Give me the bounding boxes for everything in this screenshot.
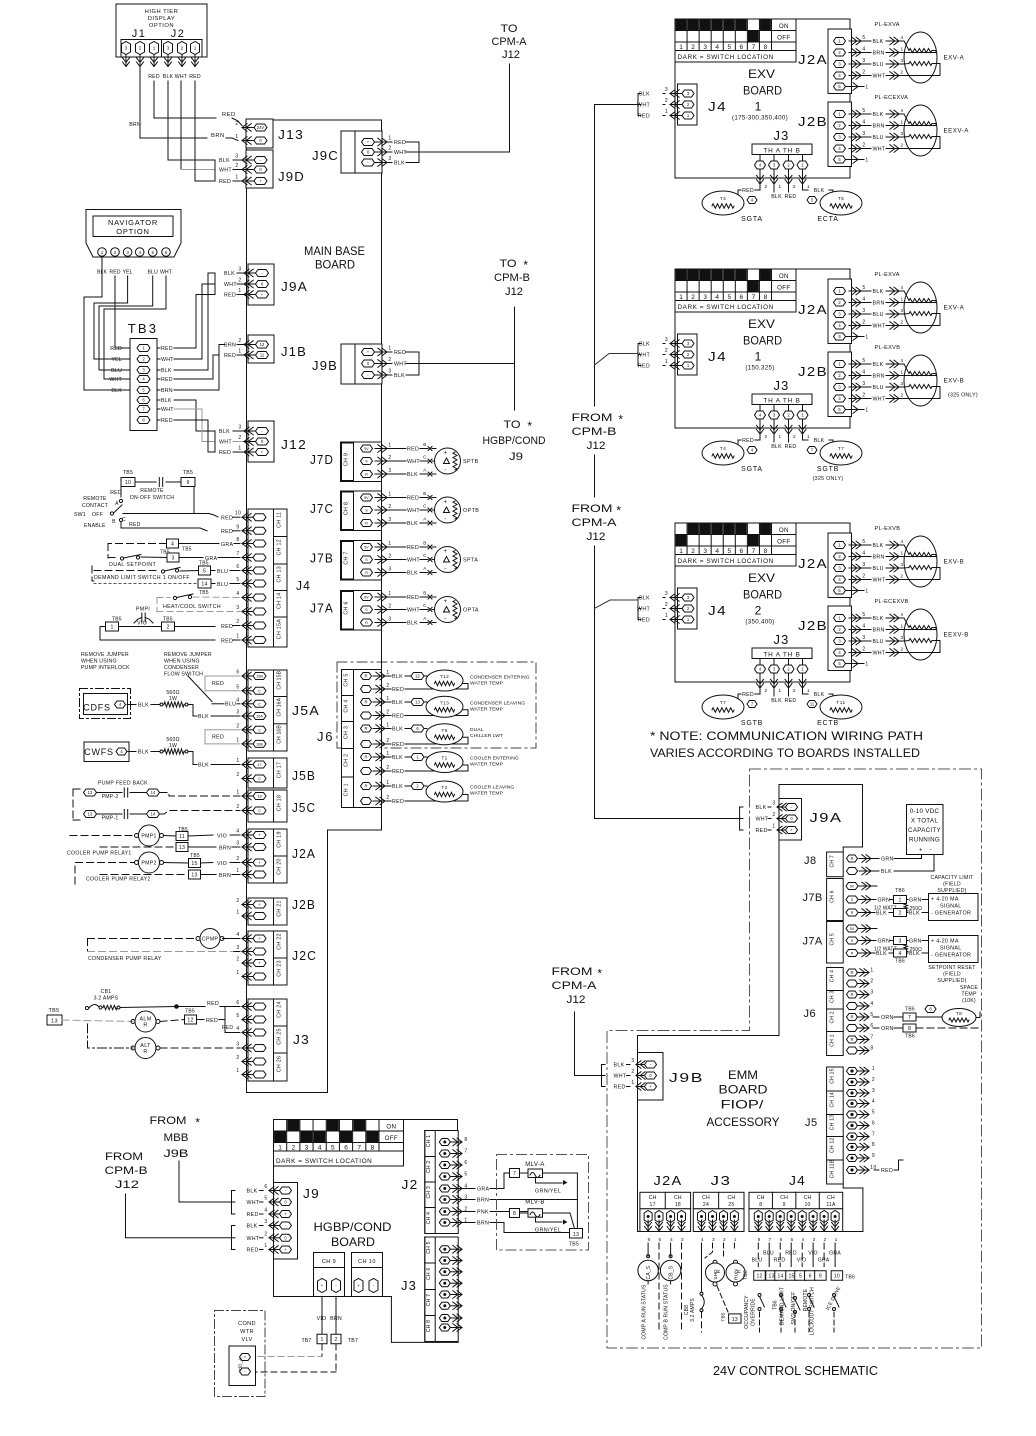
svg-text:1: 1	[755, 100, 762, 114]
svg-text:RED: RED	[206, 1018, 218, 1024]
svg-text:BRN: BRN	[161, 388, 173, 394]
svg-text:RED: RED	[222, 112, 236, 118]
svg-text:BLK: BLK	[876, 911, 887, 917]
svg-text:C: C	[423, 553, 427, 558]
svg-text:5: 5	[862, 35, 865, 41]
svg-text:REMOTE: REMOTE	[83, 496, 107, 502]
svg-text:2: 2	[900, 574, 903, 579]
svg-text:13: 13	[415, 700, 420, 705]
svg-text:BLK: BLK	[392, 755, 403, 761]
svg-text:J7C: J7C	[310, 501, 334, 516]
svg-text:3: 3	[900, 562, 903, 567]
svg-text:OFF: OFF	[777, 285, 790, 292]
svg-text:CH 16A: CH 16A	[277, 697, 283, 716]
svg-text:3: 3	[900, 381, 903, 386]
svg-text:REMOTE: REMOTE	[140, 488, 164, 494]
svg-text:FROM: FROM	[150, 1115, 187, 1127]
svg-text:*: *	[618, 413, 623, 427]
svg-text:2: 2	[235, 121, 238, 127]
svg-text:WHT: WHT	[247, 1200, 260, 1206]
svg-text:J3: J3	[774, 632, 790, 647]
svg-text:PL-EXVB: PL-EXVB	[875, 526, 901, 532]
svg-text:CH 22: CH 22	[277, 933, 283, 950]
svg-text:-: -	[444, 616, 447, 622]
svg-text:14: 14	[778, 1274, 784, 1280]
svg-text:1: 1	[865, 662, 868, 668]
svg-text:5V: 5V	[364, 447, 369, 451]
svg-text:6: 6	[780, 1237, 783, 1242]
svg-text:4: 4	[715, 44, 719, 51]
svg-text:CH 15: CH 15	[830, 1068, 836, 1083]
svg-text:*: *	[195, 1116, 200, 1130]
svg-text:BLK: BLK	[873, 543, 884, 549]
svg-text:DARK = SWITCH LOCATION: DARK = SWITCH LOCATION	[678, 558, 774, 565]
svg-text:PL-ECEXVA: PL-ECEXVA	[875, 95, 909, 101]
svg-text:2: 2	[793, 688, 796, 693]
svg-text:3: 3	[862, 131, 865, 137]
svg-text:1: 1	[900, 297, 903, 302]
svg-text:T5: T5	[838, 196, 845, 202]
svg-text:MBB: MBB	[164, 1132, 189, 1144]
svg-text:1: 1	[388, 346, 391, 352]
svg-text:BLU: BLU	[217, 569, 228, 575]
svg-text:RED: RED	[785, 698, 797, 704]
svg-text:1: 1	[679, 44, 683, 51]
svg-text:R: R	[850, 1037, 853, 1042]
svg-text:DARK = SWITCH LOCATION: DARK = SWITCH LOCATION	[678, 54, 774, 61]
svg-text:CPM-A: CPM-A	[552, 980, 598, 992]
svg-text:CONDENSER ENTERING: CONDENSER ENTERING	[470, 675, 530, 681]
svg-text:J2: J2	[171, 28, 186, 40]
svg-text:5: 5	[658, 1237, 661, 1242]
svg-text:2: 2	[765, 434, 768, 439]
svg-text:1: 1	[665, 109, 668, 115]
svg-text:BRN: BRN	[224, 343, 236, 349]
svg-text:BLK: BLK	[771, 194, 782, 200]
svg-text:5V: 5V	[364, 496, 369, 500]
svg-text:24V: 24V	[257, 125, 265, 130]
svg-text:1: 1	[807, 434, 810, 439]
svg-text:5: 5	[236, 1013, 239, 1019]
svg-text:CH 2: CH 2	[830, 1011, 836, 1023]
svg-text:CH 23: CH 23	[277, 960, 283, 977]
svg-text:CH 5: CH 5	[426, 1241, 432, 1253]
svg-text:4: 4	[171, 542, 174, 548]
svg-text:BLU: BLU	[763, 1251, 774, 1257]
svg-text:5: 5	[236, 577, 239, 583]
svg-text:J7A: J7A	[803, 936, 823, 948]
svg-text:J5A: J5A	[292, 703, 320, 718]
svg-text:9: 9	[783, 1202, 786, 1208]
svg-text:2: 2	[691, 294, 695, 301]
svg-text:1: 1	[865, 408, 868, 414]
svg-text:3: 3	[681, 1237, 684, 1242]
svg-text:PL-EXVB: PL-EXVB	[875, 345, 901, 351]
svg-text:RED: RED	[742, 188, 754, 194]
svg-text:24V CONTROL SCHEMATIC: 24V CONTROL SCHEMATIC	[713, 1364, 878, 1378]
svg-text:CH 26: CH 26	[277, 1056, 283, 1073]
svg-text:1: 1	[386, 670, 389, 676]
svg-text:3: 3	[862, 381, 865, 387]
svg-text:C: C	[423, 504, 427, 509]
svg-text:WHT: WHT	[407, 459, 420, 465]
svg-text:2: 2	[388, 455, 391, 461]
svg-text:1: 1	[236, 758, 239, 764]
svg-text:2: 2	[900, 143, 903, 148]
svg-text:3: 3	[772, 801, 775, 807]
svg-text:2: 2	[772, 812, 775, 818]
svg-text:COOLER PUMP RELAY1: COOLER PUMP RELAY1	[67, 850, 132, 856]
svg-text:J4: J4	[296, 578, 311, 593]
svg-text:(150,325): (150,325)	[745, 365, 774, 372]
svg-text:CH 9: CH 9	[322, 1259, 336, 1265]
svg-text:R: R	[716, 1269, 722, 1273]
svg-text:VLV: VLV	[241, 1337, 252, 1343]
svg-text:9: 9	[186, 480, 189, 486]
svg-text:BRN: BRN	[873, 374, 885, 380]
svg-text:7: 7	[752, 548, 756, 555]
svg-text:-: -	[444, 468, 447, 474]
svg-text:R: R	[365, 473, 368, 477]
svg-text:5V: 5V	[364, 546, 369, 550]
svg-text:RED: RED	[161, 418, 173, 424]
svg-text:REMOVE JUMPER: REMOVE JUMPER	[81, 652, 129, 658]
svg-text:1: 1	[772, 824, 775, 830]
svg-text:4: 4	[862, 370, 865, 376]
svg-text:7: 7	[908, 1015, 911, 1021]
svg-text:1: 1	[872, 1066, 875, 1072]
svg-text:WTR: WTR	[240, 1329, 254, 1335]
svg-text:WHT: WHT	[407, 558, 420, 564]
svg-text:2: 2	[388, 604, 391, 610]
svg-text:VIO: VIO	[217, 833, 227, 839]
svg-text:4: 4	[670, 1237, 673, 1242]
svg-text:13: 13	[179, 845, 185, 851]
svg-text:BLK: BLK	[161, 398, 172, 404]
svg-text:COMP B RUN STATUS: COMP B RUN STATUS	[664, 1284, 670, 1340]
svg-text:FIOP/: FIOP/	[721, 1098, 765, 1112]
svg-text:1: 1	[388, 541, 391, 547]
svg-text:1: 1	[236, 737, 239, 743]
svg-text:CH 4: CH 4	[344, 699, 350, 712]
svg-text:SUPPLIED): SUPPLIED)	[937, 888, 966, 894]
svg-text:OFF: OFF	[777, 35, 790, 42]
svg-text:WHT: WHT	[407, 608, 420, 614]
svg-text:EXV-B: EXV-B	[944, 378, 965, 385]
svg-text:3: 3	[388, 517, 391, 523]
svg-text:CH: CH	[827, 1195, 835, 1201]
svg-text:3: 3	[862, 635, 865, 641]
svg-text:TO: TO	[500, 258, 517, 270]
svg-text:2: 2	[386, 765, 389, 771]
svg-text:6: 6	[464, 1160, 467, 1166]
svg-text:RED: RED	[129, 522, 141, 528]
svg-text:-: -	[930, 848, 933, 854]
svg-text:BLK: BLK	[219, 158, 230, 164]
svg-text:VIO: VIO	[217, 861, 227, 867]
svg-text:T7: T7	[720, 700, 727, 706]
svg-text:TB5: TB5	[721, 1312, 727, 1321]
svg-text:TB5: TB5	[182, 547, 192, 553]
svg-text:6: 6	[740, 548, 744, 555]
svg-text:5: 5	[727, 294, 731, 301]
svg-text:1: 1	[236, 868, 239, 874]
svg-text:J9: J9	[303, 1186, 320, 1201]
svg-text:3: 3	[236, 841, 239, 847]
svg-text:RED: RED	[392, 714, 404, 720]
svg-text:3: 3	[264, 1219, 267, 1225]
svg-text:RED: RED	[221, 624, 233, 630]
svg-text:2: 2	[264, 1231, 267, 1237]
svg-text:CONTACT: CONTACT	[82, 503, 109, 509]
svg-text:3: 3	[862, 58, 865, 64]
svg-text:J2B: J2B	[798, 618, 828, 633]
svg-text:TB5: TB5	[569, 1242, 579, 1248]
svg-text:15: 15	[191, 861, 197, 867]
svg-text:A: A	[115, 501, 119, 507]
svg-text:OPTION: OPTION	[116, 227, 150, 236]
svg-text:RED: RED	[110, 346, 122, 352]
svg-text:RED: RED	[247, 1212, 259, 1218]
svg-text:J7B: J7B	[310, 551, 334, 566]
svg-text:1: 1	[779, 184, 782, 189]
svg-text:7: 7	[769, 1237, 772, 1242]
svg-text:B: B	[112, 519, 116, 525]
svg-text:GRA: GRA	[221, 542, 234, 548]
svg-text:CB1: CB1	[101, 989, 112, 995]
svg-text:FROM: FROM	[572, 503, 613, 515]
svg-text:BLK: BLK	[873, 112, 884, 118]
svg-text:CH 25: CH 25	[277, 1028, 283, 1045]
svg-text:1: 1	[870, 968, 873, 974]
svg-text:2: 2	[388, 504, 391, 510]
svg-text:1: 1	[386, 723, 389, 729]
svg-text:WHT: WHT	[161, 357, 174, 363]
svg-text:BLU: BLU	[217, 582, 228, 588]
svg-text:TB6: TB6	[895, 888, 905, 894]
svg-text:R: R	[850, 970, 853, 975]
svg-text:WHT: WHT	[873, 651, 886, 657]
svg-text:(FIELD: (FIELD	[943, 972, 961, 978]
svg-text:4: 4	[715, 294, 719, 301]
svg-text:B: B	[423, 442, 427, 447]
svg-text:J2B: J2B	[798, 364, 828, 379]
svg-text:BRN: BRN	[873, 628, 885, 634]
svg-text:7: 7	[236, 551, 239, 557]
svg-text:3.2 AMPS: 3.2 AMPS	[94, 996, 119, 1002]
svg-text:8: 8	[764, 294, 768, 301]
svg-text:5: 5	[727, 44, 731, 51]
svg-text:BRN: BRN	[219, 873, 231, 879]
svg-text:4: 4	[236, 1026, 239, 1032]
svg-text:1: 1	[900, 120, 903, 125]
svg-text:2: 2	[236, 619, 239, 625]
svg-text:18: 18	[257, 795, 261, 799]
svg-text:6: 6	[236, 1000, 239, 1006]
svg-text:5: 5	[862, 108, 865, 114]
svg-text:2: 2	[765, 688, 768, 693]
svg-text:1: 1	[236, 910, 239, 916]
svg-text:WHT: WHT	[394, 150, 407, 156]
svg-text:J5: J5	[805, 1117, 818, 1129]
svg-text:GRN: GRN	[878, 939, 891, 945]
svg-text:3: 3	[305, 1144, 309, 1151]
svg-text:R: R	[364, 784, 367, 789]
svg-text:16A: 16A	[256, 715, 263, 719]
svg-text:CH 6: CH 6	[830, 890, 836, 902]
svg-text:J4: J4	[789, 1173, 806, 1188]
svg-text:CH 5: CH 5	[830, 933, 836, 945]
svg-text:*: *	[527, 419, 532, 433]
svg-text:CAPACITY LIMIT: CAPACITY LIMIT	[931, 875, 975, 881]
svg-text:1: 1	[278, 1144, 282, 1151]
svg-text:BLU: BLU	[873, 639, 884, 645]
svg-text:2: 2	[291, 1144, 295, 1151]
svg-text:J3: J3	[401, 1278, 417, 1293]
svg-text:PMP2: PMP2	[141, 861, 156, 867]
svg-text:4: 4	[715, 548, 719, 555]
svg-text:R: R	[737, 1269, 743, 1273]
svg-text:1: 1	[779, 434, 782, 439]
svg-text:- GENERATOR: - GENERATOR	[931, 911, 971, 917]
svg-text:2: 2	[236, 1055, 239, 1061]
svg-text:WHT: WHT	[224, 282, 237, 288]
svg-text:BRN: BRN	[477, 1198, 489, 1204]
svg-text:6: 6	[236, 564, 239, 570]
svg-text:25: 25	[728, 1202, 734, 1208]
svg-text:BLK: BLK	[247, 1224, 258, 1230]
svg-text:BOARD: BOARD	[719, 1083, 768, 1097]
svg-text:J4: J4	[708, 99, 727, 114]
svg-text:SGTB: SGTB	[817, 466, 839, 473]
svg-text:2: 2	[236, 772, 239, 778]
svg-text:18: 18	[675, 1202, 681, 1208]
svg-text:RED: RED	[189, 74, 201, 80]
svg-text:VIO: VIO	[317, 1316, 327, 1322]
svg-text:3: 3	[862, 562, 865, 568]
svg-text:1: 1	[386, 780, 389, 786]
svg-text:SGTB: SGTB	[741, 720, 763, 727]
svg-text:1: 1	[900, 47, 903, 52]
svg-text:5: 5	[862, 285, 865, 291]
svg-text:BLK: BLK	[873, 362, 884, 368]
svg-text:BLK: BLK	[909, 911, 920, 917]
svg-text:J12: J12	[502, 49, 520, 61]
svg-text:RED: RED	[407, 447, 419, 453]
svg-text:BLK: BLK	[163, 74, 174, 80]
svg-text:CH 2: CH 2	[344, 754, 350, 767]
svg-text:VIO: VIO	[797, 1258, 807, 1264]
svg-text:CH 13: CH 13	[830, 1115, 836, 1130]
svg-text:WHT: WHT	[756, 817, 769, 823]
svg-text:1: 1	[734, 1237, 737, 1242]
svg-text:3: 3	[703, 44, 707, 51]
svg-text:J2A: J2A	[798, 556, 828, 571]
svg-text:2: 2	[900, 320, 903, 325]
svg-text:CH 9: CH 9	[344, 453, 350, 466]
svg-text:TB6: TB6	[773, 1300, 779, 1310]
svg-text:VIO: VIO	[808, 1251, 818, 1257]
svg-text:CPM-A: CPM-A	[572, 517, 618, 529]
svg-text:1: 1	[807, 184, 810, 189]
svg-text:J3: J3	[774, 128, 790, 143]
svg-text:3: 3	[388, 468, 391, 474]
svg-text:GRA: GRA	[477, 1187, 490, 1193]
svg-text:RED: RED	[407, 496, 419, 502]
svg-text:2: 2	[793, 184, 796, 189]
svg-text:J12: J12	[587, 440, 606, 452]
svg-text:CH 21: CH 21	[277, 900, 283, 917]
svg-text:13: 13	[573, 1232, 579, 1238]
svg-text:2: 2	[870, 979, 873, 985]
svg-text:6: 6	[872, 1121, 875, 1127]
svg-text:CH 6: CH 6	[344, 601, 350, 614]
svg-text:15B: 15B	[256, 675, 263, 679]
svg-text:EMM: EMM	[728, 1068, 758, 1082]
svg-text:T1: T1	[441, 756, 447, 762]
svg-text:3: 3	[703, 548, 707, 555]
svg-text:GRN/YEL: GRN/YEL	[535, 1189, 561, 1195]
svg-text:CH: CH	[727, 1195, 735, 1201]
svg-text:TH A TH B: TH A TH B	[763, 398, 800, 405]
svg-text:BLK: BLK	[771, 444, 782, 450]
svg-text:13: 13	[191, 873, 197, 879]
svg-text:1W: 1W	[169, 696, 177, 702]
svg-text:RED: RED	[774, 1258, 786, 1264]
svg-text:CH 4: CH 4	[426, 1212, 432, 1224]
svg-text:SGTA: SGTA	[741, 216, 763, 223]
svg-text:T7: T7	[838, 446, 845, 452]
svg-text:10: 10	[834, 1274, 840, 1280]
svg-text:BLK: BLK	[756, 805, 767, 811]
svg-text:R: R	[364, 700, 367, 705]
svg-text:1W: 1W	[169, 743, 177, 749]
svg-text:2: 2	[386, 683, 389, 689]
svg-text:4: 4	[862, 624, 865, 630]
svg-text:R: R	[851, 952, 854, 956]
svg-text:COMP A RUN STATUS: COMP A RUN STATUS	[642, 1284, 648, 1340]
svg-text:WHT: WHT	[109, 377, 122, 383]
svg-text:(FIELD: (FIELD	[943, 882, 961, 888]
svg-text:J3: J3	[711, 1173, 732, 1188]
svg-text:BLK: BLK	[771, 698, 782, 704]
svg-text:RED: RED	[638, 114, 650, 120]
svg-text:2: 2	[166, 625, 169, 631]
svg-text:1: 1	[679, 294, 683, 301]
svg-text:BLK: BLK	[198, 763, 209, 769]
svg-text:RED: RED	[247, 1248, 259, 1254]
svg-text:2: 2	[900, 70, 903, 75]
svg-text:WHT: WHT	[175, 74, 188, 80]
svg-text:BLU: BLU	[873, 312, 884, 318]
svg-text:5: 5	[791, 1237, 794, 1242]
svg-text:4: 4	[900, 612, 903, 617]
svg-text:14: 14	[201, 582, 207, 588]
svg-text:C: C	[258, 728, 261, 732]
svg-text:J13: J13	[278, 127, 304, 142]
svg-text:BLU: BLU	[873, 62, 884, 68]
svg-text:4: 4	[872, 1099, 875, 1105]
svg-text:1: 1	[386, 751, 389, 757]
svg-text:BRN: BRN	[477, 1221, 489, 1227]
svg-text:GRN: GRN	[878, 898, 891, 904]
svg-text:R: R	[364, 674, 367, 679]
svg-text:J9B: J9B	[164, 1148, 189, 1160]
svg-text:DARK = SWITCH LOCATION: DARK = SWITCH LOCATION	[276, 1158, 372, 1165]
svg-text:3: 3	[872, 1088, 875, 1094]
svg-text:CH 12: CH 12	[830, 1138, 836, 1153]
svg-text:BLK: BLK	[392, 674, 403, 680]
